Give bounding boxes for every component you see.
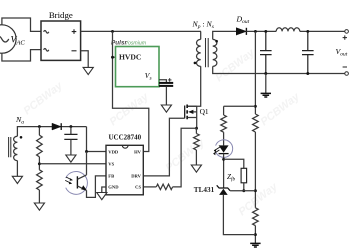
terminal Vout minus [345,72,349,76]
TL431 shunt regulator [217,185,230,195]
wire cap1 to secondary ground [265,74,267,94]
capacitor Vs (polarized) [159,82,173,84]
junction ref node [254,189,257,192]
HVDC startup block [116,47,160,87]
transformer core [206,38,209,67]
minus sign output [343,66,347,68]
junction Zfb ref [242,189,245,192]
svg-text:/osmium: /osmium [126,40,147,46]
capacitor Cvdd [64,134,77,139]
wire Vout tap down [254,31,256,114]
ground primary (bridge) [83,67,93,74]
capacitor C1 [260,31,272,73]
junction cap2 bottom [306,72,309,75]
svg-text:Bridge: Bridge [49,10,73,20]
bridge AC input symbol top [44,31,49,34]
wire HVDC drop to HV pin [113,31,149,151]
wire secondary top to diode [213,31,237,39]
plus sign output [343,35,347,39]
svg-text:Np : Ns: Np : Ns [192,20,214,31]
resistor Rcs [194,134,200,151]
wire Rfb1 to ref node [254,132,256,208]
bridge plus terminal [72,29,77,34]
optocoupler LED circle [216,140,233,158]
wire Rs2 to ground [38,190,40,203]
wire Rfb2 to ground [254,226,256,244]
ground secondary output [261,93,271,97]
svg-text:HV: HV [134,149,142,154]
phototransistor [77,175,86,191]
junction cap1 bottom [264,72,267,75]
resistor Rfb2 [253,208,259,226]
transformer primary winding Np [197,39,201,66]
diode Dout [236,28,246,35]
ground secondary feedback [250,243,260,247]
wire Vs block to cap [159,80,166,82]
svg-text:Pulsr: Pulsr [111,40,127,47]
ground VS divider [34,203,44,210]
svg-text:VS: VS [108,162,114,167]
junction bottom rail [254,233,257,236]
wire tap to LED branch [224,105,256,107]
wire aux bottom to ground [16,161,18,177]
resistor Rs2 [37,170,43,190]
wire bridge minus to ground [81,51,89,68]
junction VS node [38,162,41,165]
resistor Rs1 [38,127,40,136]
wire HVDC rail [81,30,201,32]
diode Daux [52,123,61,130]
op IC UCC28740 [106,145,143,195]
transformer secondary winding Ns [213,39,217,66]
bridge rectifier [41,21,81,60]
wire Vs cap to ground [165,87,167,105]
wire output rail [246,30,344,32]
wire TL431 ref line [230,190,255,192]
ground GND pin [97,193,107,200]
wire resistor to CS pin [143,186,156,188]
wire primary bottom to Q1 drain [188,66,201,106]
svg-text:CS: CS [135,185,141,190]
wire cap Cvdd [70,127,72,135]
capacitor C2 [302,31,314,73]
ground Cvdd [66,155,76,162]
svg-text:DRV: DRV [131,174,141,179]
wire TL431 anode to bottom rail [223,195,255,235]
LED optocoupler [219,145,229,152]
bridge minus terminal [72,50,77,52]
wire collector to VDD [86,152,88,175]
junction divider tap [254,30,257,33]
svg-text:UCC28740: UCC28740 [108,134,141,142]
node primary dot [194,62,197,65]
ground Vs cap [161,105,171,112]
wire cathode to Zfb [224,159,244,168]
node HVDC stub to block [113,56,116,58]
svg-text:VDD: VDD [108,149,119,154]
junction HVDC rail [111,30,114,33]
AC source VAC [0,25,16,53]
wire VS node to pin [39,163,106,165]
impedance Zfb [241,168,247,183]
wire aux rail to VDD pin [87,127,107,152]
plus sign Vs cap [168,78,172,82]
transistor Q1 MOSFET [185,105,197,120]
terminal Vout plus [345,30,349,34]
wire rail to primary top [200,31,202,39]
svg-text:GND: GND [108,184,119,189]
wire secondary bottom to return rail [213,66,345,73]
LED light arrows [214,147,220,154]
junction LED cathode [222,158,225,161]
resistor Rcs-filter [156,184,172,189]
wire VAC top to bridge [2,18,41,31]
aux core [9,137,11,157]
junction aux cap [69,125,72,128]
wire DRV to gate [143,118,184,176]
junction VDD [85,150,88,153]
junction divider top [254,105,257,108]
junction cap1 top [264,30,267,33]
wire emitter to FB pin [87,176,107,198]
inductor output filter [276,28,300,32]
ground Rcs [191,165,201,172]
svg-text:Q1: Q1 [200,107,209,116]
wire Rled to LED [223,132,225,145]
node secondary dot [215,40,218,43]
wire LED cathode to node [223,154,225,188]
svg-text:TL431: TL431 [194,186,215,194]
aux winding Na [14,136,18,160]
wire Rcs to ground [195,150,197,165]
junction cap2 top [306,30,309,33]
photo light arrows [65,177,72,184]
optocoupler phototransistor circle [66,172,88,195]
bridge AC input symbol bottom [44,49,49,52]
resistor Rfb1 [253,114,259,132]
IC notch [122,145,128,148]
wire VAC bottom to bridge [2,50,41,61]
junction aux divider [38,125,41,128]
wire Rs1 to node [38,157,40,170]
ground aux winding [12,176,22,183]
junction Q1 source [196,118,198,129]
svg-text:HVDC: HVDC [119,53,141,62]
wire aux top rail [17,127,86,137]
wire CS to source [173,128,197,187]
wire Zfb to ref line [243,183,245,191]
svg-text:FB: FB [108,174,114,179]
wire source to Rcs [195,128,197,133]
resistor Rled [221,115,227,132]
node aux dot [20,136,23,139]
wire LED branch down [223,106,225,115]
wire GND pin to ground [102,187,106,193]
